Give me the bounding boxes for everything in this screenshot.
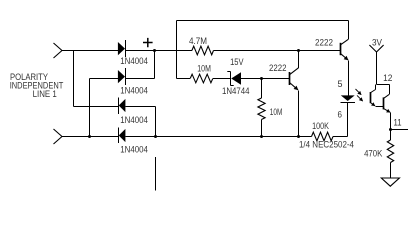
svg-text:12: 12 <box>383 73 392 83</box>
power 3V arrow <box>369 45 383 52</box>
svg-text:2222: 2222 <box>269 63 287 73</box>
LED triangle <box>341 95 355 101</box>
PT1 collector diagonal <box>371 90 376 93</box>
junction dot zener/R3 node <box>260 77 263 80</box>
junction dot row4/riser3 <box>154 135 157 138</box>
svg-text:1N4004: 1N4004 <box>120 115 148 125</box>
svg-text:6: 6 <box>338 109 343 119</box>
svg-text:1N4744: 1N4744 <box>222 86 250 96</box>
node input line2 arrow <box>54 129 63 144</box>
diode D1 triangle <box>118 42 125 55</box>
wire zener row left <box>177 78 191 80</box>
bar phototransistor PT2 <box>383 97 385 109</box>
wire row1 diode to Q1 base <box>125 50 192 52</box>
svg-text:10M: 10M <box>270 107 283 117</box>
bar transistor Q1 <box>340 43 342 55</box>
wire riser row1-row3 <box>73 51 75 107</box>
wire 10M vertical bottom stub <box>261 120 263 137</box>
transistor Q2 collector diagonal <box>290 68 299 75</box>
wire 470K bottom stub <box>390 163 392 179</box>
junction dot Q2 collector node <box>297 49 300 52</box>
wire top rail <box>177 20 349 22</box>
bar diode D2 cathode <box>125 68 127 85</box>
PT1 emitter diagonal <box>371 103 375 106</box>
wire Q1 collector riser <box>348 21 350 40</box>
junction dot output node <box>389 128 392 131</box>
svg-text:15V: 15V <box>230 57 243 67</box>
svg-text:100K: 100K <box>312 121 329 131</box>
wire output pin 11 <box>391 129 408 131</box>
bar zener cathode <box>230 72 232 86</box>
wire riser plus node to row2 <box>154 51 156 79</box>
diode D3 triangle <box>119 99 126 112</box>
wire 10M vertical top stub <box>261 79 263 99</box>
bar diode D1 cathode <box>125 40 127 57</box>
node input line1 arrow <box>54 43 63 58</box>
transistor Q1 emitter diagonal <box>341 54 349 60</box>
resistor R2 10M zigzag <box>190 74 213 83</box>
bar transistor Q2 <box>289 72 291 85</box>
svg-text:2222: 2222 <box>315 37 333 47</box>
svg-text:1N4004: 1N4004 <box>120 145 148 155</box>
bar diode D4 cathode <box>118 127 120 143</box>
resistor R1 4.7M zigzag <box>192 46 214 55</box>
wire row2 left <box>90 78 118 80</box>
wire zener row mid <box>213 78 231 80</box>
wire riser row2-row4 <box>89 79 91 137</box>
resistor R4 100K zigzag <box>312 132 334 141</box>
svg-text:11: 11 <box>394 118 402 128</box>
wire PT1 emitter to PT2 base <box>375 106 383 108</box>
wire row3 right <box>125 106 155 108</box>
bar diode D3 cathode <box>118 97 120 113</box>
wire Q1 emitter to LED anode <box>348 61 350 96</box>
svg-text:1N4004: 1N4004 <box>120 86 148 96</box>
svg-text:5: 5 <box>338 79 343 89</box>
wire PT1 collector stub <box>375 85 377 90</box>
junction dot R3 bottom <box>260 135 263 138</box>
wire continuation stub <box>155 157 157 191</box>
PT2 collector diagonal <box>384 94 390 98</box>
svg-text:3V: 3V <box>372 38 382 48</box>
wire 3V supply drop <box>376 52 378 85</box>
svg-text:4.7M: 4.7M <box>189 36 207 46</box>
ground symbol <box>381 178 399 186</box>
zener D5 ticks <box>227 72 233 86</box>
wire Q2 emitter drop <box>298 90 300 136</box>
svg-text:LINE 1: LINE 1 <box>33 89 57 99</box>
wire row1 right of 4.7M <box>214 50 341 52</box>
svg-text:470K: 470K <box>364 149 382 159</box>
wire bottom rail <box>125 136 311 138</box>
wire row2 right <box>125 78 155 80</box>
light arrow 2 <box>357 95 363 101</box>
svg-text:1N4004: 1N4004 <box>120 56 148 66</box>
svg-text:1/4 NEC2502-4: 1/4 NEC2502-4 <box>299 140 354 150</box>
junction dot Q2 emitter node <box>297 135 300 138</box>
junction dot plus node <box>153 49 156 52</box>
wire row4 input to D4 <box>62 136 119 138</box>
transistor Q2 emitter diagonal <box>290 83 299 90</box>
resistor R3 10M vertical zigzag <box>258 98 265 120</box>
transistor Q1 collector diagonal <box>341 39 349 45</box>
wire opto collector rail <box>377 84 390 86</box>
light arrow 1 <box>356 89 362 95</box>
bar phototransistor PT1 <box>370 92 372 103</box>
svg-text:10M: 10M <box>197 64 211 74</box>
wire zener to Q2 base <box>241 78 290 80</box>
wire PT2 collector riser <box>389 85 391 95</box>
wire riser plus to top rail <box>176 21 178 79</box>
PT2 emitter diagonal <box>384 109 390 113</box>
junction dot row4/riser2 <box>88 135 91 138</box>
wire Q2 collector riser <box>298 51 300 68</box>
wire row1 input to diode D1 <box>62 50 118 52</box>
wire riser row3-row4 <box>155 107 157 137</box>
resistor R5 470K zigzag <box>387 140 393 163</box>
node plus sign <box>143 38 153 47</box>
wire 470K top stub <box>390 130 392 141</box>
zener D5 triangle <box>231 72 241 84</box>
diode D4 triangle <box>119 129 126 142</box>
wire row3 left <box>74 106 119 108</box>
wire PT2 emitter drop <box>390 112 392 129</box>
wire 100K to LED cathode riser <box>333 103 348 137</box>
bar LED cathode <box>341 102 356 104</box>
diode D2 triangle <box>118 70 125 83</box>
